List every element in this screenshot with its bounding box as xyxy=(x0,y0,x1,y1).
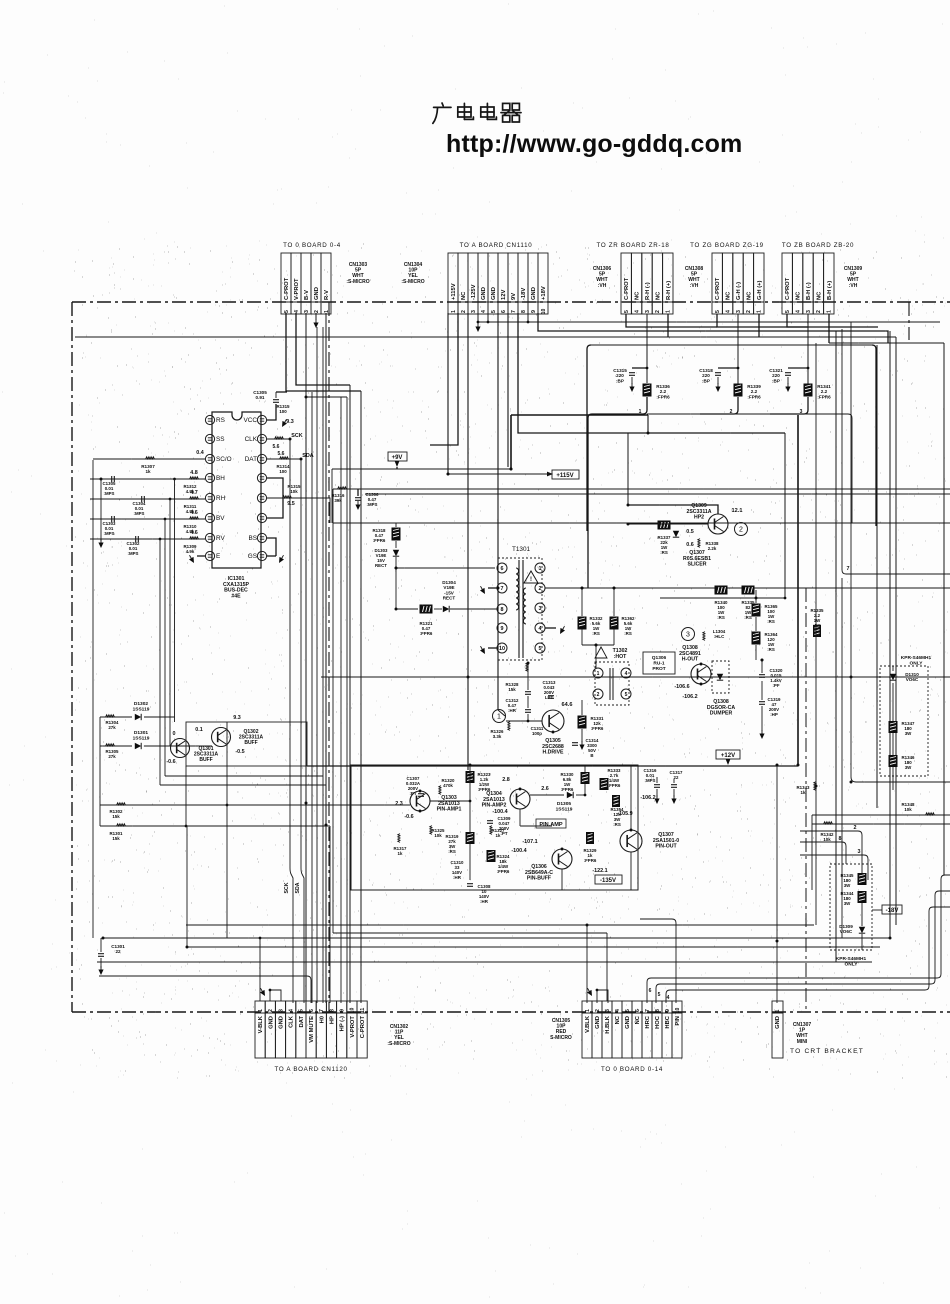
svg-text:2.8: 2.8 xyxy=(502,777,510,783)
svg-text:5: 5 xyxy=(658,992,661,998)
svg-text:3W: 3W xyxy=(844,883,851,888)
svg-text::RS: :RS xyxy=(813,623,821,628)
connector TO 0 BOARD 0-14 xyxy=(582,1001,592,1013)
cn1302 gnd loop xyxy=(270,990,281,1001)
svg-text:6: 6 xyxy=(501,566,504,572)
svg-text:1SS119: 1SS119 xyxy=(556,806,573,812)
svg-text:1: 1 xyxy=(585,1009,591,1012)
resistor R1320 xyxy=(439,786,441,795)
bus v 312 xyxy=(311,392,313,1003)
IC1301 pin SC/O left xyxy=(205,454,214,463)
svg-text:GND: GND xyxy=(268,1016,274,1029)
svg-text:2.2k: 2.2k xyxy=(708,546,717,551)
wire q1309 base xyxy=(628,523,708,525)
svg-text:T1301: T1301 xyxy=(512,546,531,553)
diode D1310 xyxy=(890,674,896,680)
transistor Q1305 H.DRIVE xyxy=(542,710,564,732)
node R1311 drive xyxy=(169,498,172,501)
svg-text:6: 6 xyxy=(309,1009,315,1012)
resistor R1345 xyxy=(858,873,867,885)
svg-text:HBC: HBC xyxy=(665,1015,671,1028)
svg-text::FPR6: :FPR6 xyxy=(561,787,574,792)
svg-text:TO A BOARD CN1120: TO A BOARD CN1120 xyxy=(274,1066,347,1073)
svg-text:H.BLK: H.BLK xyxy=(605,1015,611,1034)
svg-text:RECT: RECT xyxy=(443,596,456,601)
svg-text:H-OUT: H-OUT xyxy=(682,657,699,663)
node dots rail xyxy=(447,473,450,476)
svg-text:6: 6 xyxy=(501,310,507,313)
capacitor C1316 xyxy=(654,784,660,786)
svg-text:ONLY: ONLY xyxy=(845,961,859,967)
svg-text:RH: RH xyxy=(216,495,226,502)
wire row R1310 xyxy=(90,518,205,520)
warning triangle T1301 xyxy=(524,571,538,583)
svg-text:-135V: -135V xyxy=(600,878,616,884)
IC1301 pin BS right xyxy=(257,533,266,542)
wire gnd bus right xyxy=(478,321,940,323)
wire pin4-pin6 loop xyxy=(267,478,283,518)
diode D1304 xyxy=(443,606,449,612)
resistor R1324 xyxy=(487,850,496,862)
svg-text:SCK: SCK xyxy=(291,433,302,439)
svg-text:http://www.go-gddq.com: http://www.go-gddq.com xyxy=(446,130,742,158)
svg-text:B-H (+): B-H (+) xyxy=(827,281,833,300)
T1302 pin 4 xyxy=(621,668,631,678)
svg-text:R-H (+): R-H (+) xyxy=(666,281,672,300)
numbered node 1 xyxy=(493,710,506,723)
svg-text::RS: :RS xyxy=(744,615,752,620)
wire drive vertical 165 xyxy=(164,519,166,776)
numbered node 2 xyxy=(735,523,748,536)
wire t1301 pin8 xyxy=(450,608,497,610)
T1301 core xyxy=(518,560,520,658)
svg-text::HOT: :HOT xyxy=(614,654,628,660)
capacitor C1319 xyxy=(759,701,765,703)
IC1301 pin GS right xyxy=(257,551,266,560)
wire bus 341 347 top xyxy=(306,396,347,398)
svg-text:2: 2 xyxy=(314,310,320,313)
transistor Q1301 BUFF xyxy=(171,739,190,758)
svg-text::FPR6: :FPR6 xyxy=(584,858,597,863)
big dark box bottom xyxy=(307,765,798,767)
svg-text::VH: :VH xyxy=(690,283,699,289)
gnd bus pins 4 5 9 xyxy=(477,313,479,322)
wire d1304 row xyxy=(396,608,418,610)
board frame bottom dash-dot line xyxy=(72,1011,950,1013)
svg-text:10: 10 xyxy=(541,309,547,315)
wire 505 left xyxy=(627,433,629,505)
IC1301 pin BV left xyxy=(205,513,214,522)
svg-text:D1301: D1301 xyxy=(134,730,148,736)
svg-text:8: 8 xyxy=(501,607,504,613)
svg-text:MINI: MINI xyxy=(797,1039,808,1045)
diode D1307 slicer xyxy=(673,531,679,537)
wire C-PROT vertical to CN1302 xyxy=(360,391,362,1003)
wire drive 160 bus xyxy=(160,784,326,786)
IC1301 pin DAT right xyxy=(257,454,266,463)
svg-text:4: 4 xyxy=(667,995,670,1001)
wire c1319 xyxy=(761,681,763,700)
IC U1301 CXA1315P body xyxy=(212,412,261,568)
svg-text:R-H (-): R-H (-) xyxy=(645,282,651,300)
resistor R1343 xyxy=(814,782,816,791)
right Lbend 4 xyxy=(666,907,950,1003)
svg-text:NC: NC xyxy=(796,291,802,300)
wire below resistor xyxy=(643,397,647,414)
resistor R1310 xyxy=(190,517,199,519)
resistor R1321 xyxy=(420,605,433,614)
wire long horiz 337 xyxy=(75,336,896,338)
svg-text::FPR6: :FPR6 xyxy=(591,726,604,731)
svg-text:GND: GND xyxy=(595,1016,601,1029)
svg-text:SS: SS xyxy=(216,436,225,443)
wire 0-14 pin1 xyxy=(586,925,588,1003)
wire zg pin1 down xyxy=(758,314,760,337)
svg-text:LPT: LPT xyxy=(545,695,554,700)
svg-text:100: 100 xyxy=(279,409,287,414)
svg-text:GND: GND xyxy=(481,287,487,300)
svg-text:5: 5 xyxy=(785,310,791,313)
IC1301 pin E left xyxy=(205,551,214,560)
wire E gnd xyxy=(197,555,205,557)
bus 976 xyxy=(99,976,311,1003)
svg-text:HRC: HRC xyxy=(645,1015,651,1028)
resistor R1340 xyxy=(715,586,728,595)
T1302 pin 2 xyxy=(593,689,603,699)
vert 227 xyxy=(226,722,228,938)
resistor R1304 xyxy=(106,715,115,717)
svg-text:!: ! xyxy=(530,577,532,583)
numbered node 3 xyxy=(682,628,695,641)
svg-text:3: 3 xyxy=(686,631,690,638)
svg-text:7: 7 xyxy=(645,1009,651,1012)
svg-text::FPR6: :FPR6 xyxy=(497,869,510,874)
right Lbend 6 xyxy=(647,875,950,1003)
bus 824 xyxy=(812,823,950,825)
svg-text:3.3k: 3.3k xyxy=(493,734,502,739)
svg-text:12.1: 12.1 xyxy=(732,508,743,514)
svg-text:0.91: 0.91 xyxy=(256,395,265,400)
wire zg pin3 down xyxy=(737,314,739,386)
svg-text:10: 10 xyxy=(350,1008,356,1014)
wire c1316 grounds xyxy=(656,789,658,797)
wire row R1312 xyxy=(90,478,205,480)
wire zr pin3 down xyxy=(646,314,648,383)
bus 677 xyxy=(321,676,950,678)
svg-text:NC: NC xyxy=(726,291,732,300)
rail 816 xyxy=(815,343,817,925)
svg-text:2: 2 xyxy=(597,692,600,698)
wire NC pin2 down xyxy=(430,313,458,445)
bus 925 xyxy=(186,924,814,926)
wire pin5 right xyxy=(267,498,330,523)
wire C-PROT elbow xyxy=(717,314,808,327)
svg-text:NC: NC xyxy=(615,1015,621,1024)
svg-text:HOC: HOC xyxy=(655,1015,661,1029)
svg-text::FPR6: :FPR6 xyxy=(747,394,761,399)
IC1301 pin CLK right xyxy=(257,434,266,443)
svg-text:DAT: DAT xyxy=(245,456,257,463)
svg-text:GND: GND xyxy=(279,1016,285,1029)
IC1301 pin RS left xyxy=(205,415,214,424)
wire zr net left xyxy=(588,414,643,588)
diode D1305 xyxy=(567,792,573,798)
wire +18V pin10 xyxy=(538,313,888,343)
svg-text:3: 3 xyxy=(858,849,861,855)
resistor R1309 xyxy=(190,537,199,539)
wire SDA vertical xyxy=(301,459,304,1003)
svg-text:TO 0 BOARD 0-14: TO 0 BOARD 0-14 xyxy=(601,1066,663,1073)
svg-text::MPS: :MPS xyxy=(128,551,139,556)
svg-text::S-MICRO: :S-MICRO xyxy=(387,1041,410,1047)
vert 812 xyxy=(811,815,813,890)
IC1301 pin SS left xyxy=(205,434,214,443)
svg-text:VM MUTE: VM MUTE xyxy=(309,1016,315,1043)
svg-text:1: 1 xyxy=(757,310,763,313)
resistor R1332 xyxy=(578,617,587,630)
svg-text:NC: NC xyxy=(461,291,467,300)
svg-text::BP: :BP xyxy=(616,378,624,383)
svg-text:SC/O: SC/O xyxy=(216,456,232,463)
wire zb net left xyxy=(770,413,804,415)
wire long horiz 343 xyxy=(829,342,944,344)
svg-text:-0.6: -0.6 xyxy=(404,814,413,820)
wire 115v rail h xyxy=(448,473,552,475)
svg-text:2: 2 xyxy=(595,1009,601,1012)
svg-text:3W: 3W xyxy=(905,731,912,736)
bus v 323 xyxy=(322,327,324,1003)
left vert rail x93 xyxy=(92,460,94,938)
svg-text::RS: :RS xyxy=(613,822,621,827)
svg-text:BV: BV xyxy=(216,515,225,522)
wire V-PROT vertical to CN1302 xyxy=(349,385,351,1003)
cn1305 gnd loop xyxy=(597,990,608,1003)
svg-text::FPR6: :FPR6 xyxy=(656,394,670,399)
svg-text:5: 5 xyxy=(299,1009,305,1012)
bus 933 xyxy=(333,932,607,934)
svg-text:+18V: +18V xyxy=(541,286,547,300)
svg-text:HP2: HP2 xyxy=(694,515,704,521)
svg-text::HLC: :HLC xyxy=(714,634,725,639)
left vert gnd rail xyxy=(100,479,102,541)
svg-text:2: 2 xyxy=(854,825,857,831)
resistor R1328 xyxy=(526,663,528,672)
wire row R1311 xyxy=(90,498,205,500)
svg-text:7: 7 xyxy=(847,566,850,572)
-18V label right xyxy=(882,905,902,914)
wire pinamp q1303 xyxy=(430,800,470,802)
svg-text:-18V: -18V xyxy=(521,288,527,300)
svg-text:SDA: SDA xyxy=(295,882,301,893)
capacitor C1314 xyxy=(572,742,578,744)
svg-text:B-H (-): B-H (-) xyxy=(806,282,812,300)
rail 836 xyxy=(835,331,837,962)
inner box outline A xyxy=(587,345,591,531)
wire B-V pin3 down xyxy=(305,313,307,1003)
capacitor C1308 xyxy=(467,883,473,885)
svg-text:-106.2: -106.2 xyxy=(640,795,655,801)
big dark box right vertical xyxy=(797,415,799,765)
svg-text:9.3: 9.3 xyxy=(286,419,294,425)
svg-text::HP: :HP xyxy=(770,712,778,717)
wire cn1302 pin1 xyxy=(259,938,261,1001)
capacitor C1304 xyxy=(141,496,143,502)
resistor R1335 rail xyxy=(813,625,821,637)
svg-text:1SS119: 1SS119 xyxy=(133,735,150,741)
svg-text::MPS: :MPS xyxy=(367,502,378,507)
KPR-S46MH1 box bottom xyxy=(830,864,872,950)
svg-text:-125V: -125V xyxy=(471,284,477,300)
svg-text:-0.5: -0.5 xyxy=(235,749,244,755)
svg-text:KPR-S46MH1: KPR-S46MH1 xyxy=(901,655,932,661)
svg-text:1k: 1k xyxy=(496,833,501,838)
svg-text:G-H (-): G-H (-) xyxy=(736,282,742,300)
resistor R1341 xyxy=(804,384,813,397)
svg-text:0.1: 0.1 xyxy=(195,727,203,733)
warning triangle T1302 xyxy=(595,647,607,658)
svg-text:V.BLK: V.BLK xyxy=(585,1015,591,1033)
wire pinamp v631 xyxy=(630,765,632,830)
svg-text:4.6: 4.6 xyxy=(190,530,198,536)
svg-text:2.6: 2.6 xyxy=(541,786,549,792)
-135V label xyxy=(595,875,622,884)
resistor R1330 xyxy=(581,772,590,784)
svg-text:3: 3 xyxy=(605,1009,611,1012)
wire R-V pin1 down xyxy=(325,313,327,1003)
ground arrow CN1110 xyxy=(475,323,480,332)
svg-text:8: 8 xyxy=(839,836,842,842)
T1301 pin 9 xyxy=(497,623,507,633)
board frame top dash-dot line xyxy=(72,301,950,303)
svg-text:VO6C: VO6C xyxy=(840,929,853,934)
wire hout area xyxy=(660,597,785,599)
wire zb pin1 down xyxy=(828,314,830,343)
svg-text:5: 5 xyxy=(715,310,721,313)
IC1301 pin BH left xyxy=(205,473,214,482)
svg-text:#4E: #4E xyxy=(231,593,241,599)
node R1310 drive xyxy=(164,518,167,521)
svg-text:VO6C: VO6C xyxy=(906,677,919,682)
svg-text::FPR6: :FPR6 xyxy=(608,783,621,788)
ground at pin2 xyxy=(315,313,317,320)
svg-text:DAT: DAT xyxy=(299,1016,305,1028)
IC1301 pin RH left xyxy=(205,493,214,502)
svg-text:V-BLK: V-BLK xyxy=(258,1015,264,1033)
box buffer xyxy=(186,722,307,766)
diode D1303 xyxy=(393,550,399,556)
svg-text::RS: :RS xyxy=(592,631,600,636)
svg-text::VH: :VH xyxy=(849,283,858,289)
svg-text:5: 5 xyxy=(284,310,290,313)
svg-text:1: 1 xyxy=(451,310,457,313)
svg-text:B-V: B-V xyxy=(304,290,310,300)
capacitor C1306 xyxy=(357,489,359,496)
wire bus 341 xyxy=(340,397,342,1003)
wire 785 down xyxy=(784,433,786,598)
svg-text:Q1306: Q1306 xyxy=(652,655,667,661)
IC1301 pin VCC right xyxy=(257,415,266,424)
wire bus 347 xyxy=(346,397,348,1003)
svg-text:4: 4 xyxy=(539,626,542,632)
T1302 pin 5 xyxy=(621,689,631,699)
svg-text:-122.1: -122.1 xyxy=(592,868,607,874)
resistor R1312 xyxy=(190,477,199,479)
svg-text:C-PROT: C-PROT xyxy=(360,1016,366,1039)
wire q1304 col xyxy=(519,809,521,826)
connector CN1307 xyxy=(772,1001,783,1013)
wire below resistor xyxy=(804,397,808,414)
transistor Q1306 HOUT xyxy=(691,664,711,684)
svg-text:B: B xyxy=(590,753,593,758)
svg-text:1k: 1k xyxy=(801,790,806,795)
svg-text:64.6: 64.6 xyxy=(562,702,573,708)
wire r1302 row xyxy=(100,804,410,806)
resistor R1318 xyxy=(392,528,401,541)
svg-text:C-PROT: C-PROT xyxy=(715,277,721,300)
svg-text:12V: 12V xyxy=(501,290,507,300)
svg-text::RS: :RS xyxy=(448,849,456,854)
capacitor C1315 xyxy=(632,367,647,369)
svg-text:5: 5 xyxy=(624,310,630,313)
wire drive vertical 160 xyxy=(159,539,161,785)
svg-text:RS: RS xyxy=(216,417,225,424)
svg-text::S-MICRO: :S-MICRO xyxy=(401,279,424,285)
svg-text:3: 3 xyxy=(278,1009,284,1012)
svg-text:RECT: RECT xyxy=(375,563,387,568)
dash rail 806 xyxy=(805,588,807,1012)
wire 12V pin6 down xyxy=(497,313,499,560)
inductor L1304 xyxy=(703,632,705,641)
capacitor C1320 xyxy=(759,674,765,676)
header Chinese title 广电电器 (drawn strokes) xyxy=(433,103,521,123)
svg-text::PF: :PF xyxy=(772,683,779,688)
resistor R1347 xyxy=(889,721,898,733)
svg-text:4: 4 xyxy=(289,1009,295,1012)
svg-text:8: 8 xyxy=(329,1009,335,1012)
wire C-PROT pin5 down xyxy=(286,313,361,391)
svg-text:BUFF: BUFF xyxy=(199,757,212,763)
svg-text:PIN-BUFF: PIN-BUFF xyxy=(527,876,551,882)
wire C-PROT elbow xyxy=(626,314,717,327)
svg-text:+115V: +115V xyxy=(556,473,573,479)
box Q1306 RU-1 PROT xyxy=(643,652,675,674)
resistor R1346 xyxy=(889,755,898,767)
wire pinamp v585 xyxy=(584,765,586,772)
svg-text:KPR-S46MH1: KPR-S46MH1 xyxy=(836,956,867,962)
svg-text::S-MICRO: :S-MICRO xyxy=(346,279,369,285)
svg-text:1: 1 xyxy=(258,1009,264,1012)
svg-text:27k: 27k xyxy=(108,754,116,759)
svg-text:9V: 9V xyxy=(511,293,517,300)
svg-text::MPS: :MPS xyxy=(104,531,115,536)
bus v 317 xyxy=(316,327,318,1003)
capacitor C1321 xyxy=(788,367,808,369)
svg-text:3W: 3W xyxy=(844,901,851,906)
wire corner 896 down xyxy=(895,337,897,925)
wire 12V down to drive xyxy=(497,560,499,710)
KPR-S46MH1 box top xyxy=(880,666,928,776)
svg-text:2: 2 xyxy=(739,526,743,533)
svg-text:-107.1: -107.1 xyxy=(522,839,537,845)
svg-text:9: 9 xyxy=(340,1009,346,1012)
svg-text:2: 2 xyxy=(746,310,752,313)
bus 938 xyxy=(103,937,889,939)
svg-text:4.9k: 4.9k xyxy=(186,549,195,554)
svg-text:GND: GND xyxy=(314,287,320,300)
wire t1302 feed xyxy=(595,645,597,668)
resistor R1344 xyxy=(858,891,867,903)
junction dots xyxy=(305,396,308,399)
